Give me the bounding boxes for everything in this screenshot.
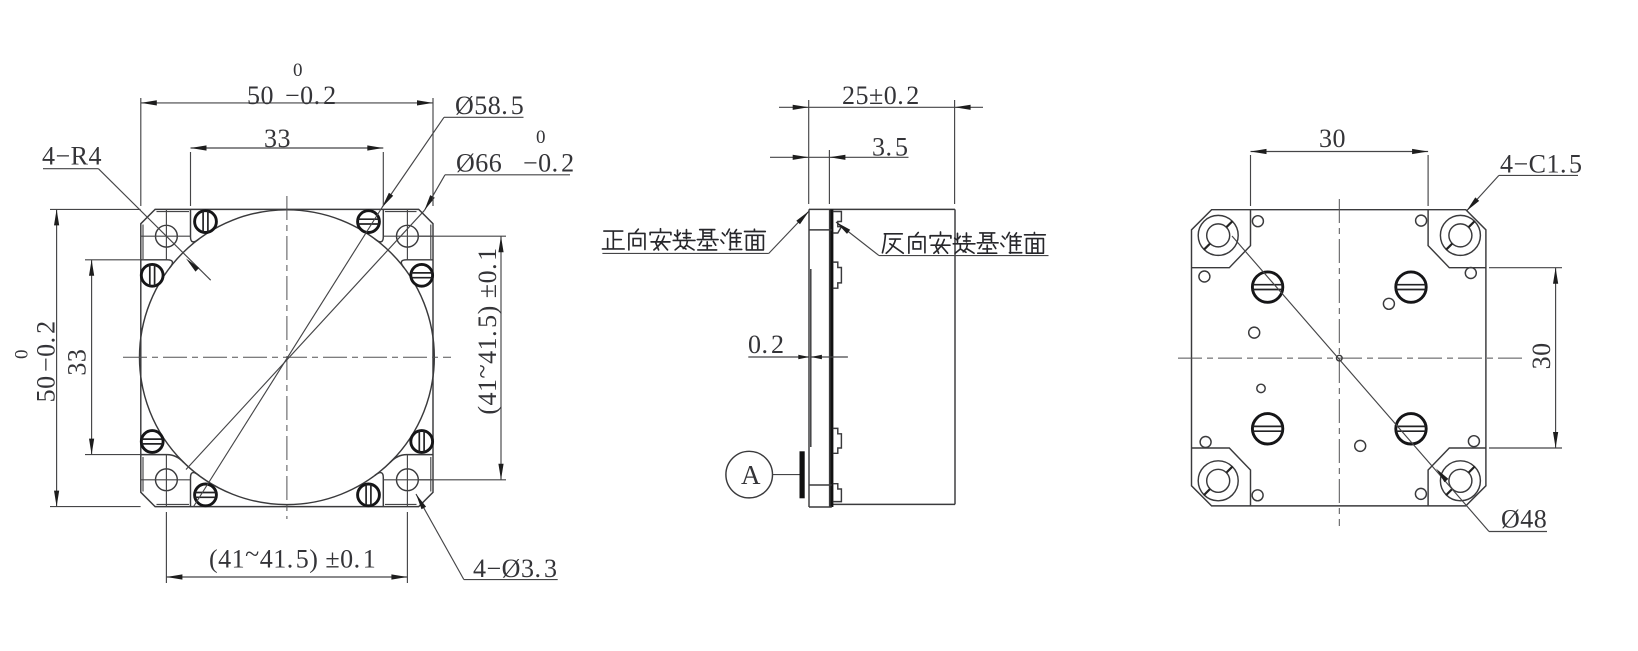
vertical centerline — [286, 196, 288, 519]
svg-text:0: 0 — [536, 127, 546, 148]
O48 bolt-circle diagonal leader — [1232, 236, 1489, 532]
dimension (41~41.5) +-0.1 bottom: extension lines — [165, 512, 167, 583]
svg-text:0: 0 — [293, 60, 303, 81]
plate bottom edge — [809, 506, 832, 508]
svg-text:33: 33 — [63, 349, 92, 376]
body bottom edge — [832, 503, 955, 505]
svg-text:−0.2: −0.2 — [523, 149, 575, 178]
top-left corner pad outline — [1192, 210, 1251, 268]
top-left pocket horizontal wall — [141, 260, 173, 268]
rear view vertical centerline — [1338, 199, 1340, 526]
svg-text:(41~41.5) ±0.1: (41~41.5) ±0.1 — [468, 247, 502, 414]
dimension right: dimension line — [500, 236, 502, 480]
svg-text:Ø48: Ø48 — [1501, 505, 1547, 534]
svg-text:50: 50 — [31, 375, 60, 402]
slotted screw head rear upper-left — [1252, 272, 1282, 302]
slotted screw head rear lower-right — [1396, 414, 1426, 444]
svg-text:4−C1.5: 4−C1.5 — [1500, 150, 1583, 179]
counterbore hole top-right — [1440, 215, 1480, 255]
horizontal centerline — [123, 356, 451, 358]
slotted screw head, top edge left — [195, 211, 217, 233]
O58.5 leader from label — [382, 117, 444, 207]
clip tab upper — [833, 262, 842, 288]
dimension 33 left: extension lines — [85, 259, 141, 261]
plate bottom flange line — [809, 484, 832, 486]
plate left edge (front mounting face) — [808, 209, 810, 507]
left view: front view of square mounting plate — [12, 60, 575, 583]
middle view: side section of plate and body — [602, 81, 1048, 507]
bottom-left pocket vertical wall — [191, 473, 200, 507]
datum target A: filled target bar — [800, 451, 805, 498]
dimension 3.5: dimension line — [770, 156, 909, 158]
slotted screw head, top edge right — [358, 211, 380, 233]
corner rim inner edge lines — [142, 225, 144, 260]
dimension 30 right: dimension line — [1555, 268, 1557, 448]
datum target A: leader line — [773, 474, 800, 476]
clip tab top — [833, 212, 842, 234]
corner mounting hole bottom-left — [156, 469, 178, 491]
top-right pocket vertical wall — [375, 209, 384, 241]
counterbore hole top-left — [1198, 215, 1238, 255]
4-R4 leader through corner hole — [98, 169, 210, 281]
dimension 50 -0.2 left: extension lines — [50, 208, 141, 210]
svg-text:33: 33 — [264, 124, 291, 153]
svg-text:4−R4: 4−R4 — [42, 142, 102, 171]
large rotor circle (O58.5) — [140, 210, 435, 505]
svg-text:−0.2: −0.2 — [285, 81, 337, 110]
dimension 30 right: extension lines — [1489, 267, 1562, 269]
top-right pocket horizontal wall — [401, 260, 433, 268]
clip tab lower — [833, 428, 842, 453]
svg-text:4−Ø3.3: 4−Ø3.3 — [473, 554, 557, 583]
plate top flange line — [809, 229, 832, 231]
dimension right: rotated text — [468, 247, 502, 414]
counterbore hole bottom-left — [1198, 461, 1238, 501]
slotted screw head, bottom edge left — [195, 484, 217, 506]
dimension 33 top: dimension line — [191, 147, 384, 149]
svg-text:(41~41.5) ±0.1: (41~41.5) ±0.1 — [209, 540, 376, 574]
4-C1.5 leader — [1467, 175, 1499, 211]
slotted screw head rear upper-right — [1396, 272, 1426, 302]
dimension 25+-0.2: extension lines — [808, 100, 810, 204]
leader of reverse label — [836, 222, 879, 256]
svg-text:0.2: 0.2 — [748, 330, 785, 359]
slotted screw head, right edge lower — [411, 431, 433, 453]
svg-text:Ø66: Ø66 — [456, 149, 502, 178]
plate outline with 4 chamfered corners — [141, 209, 433, 506]
corner mounting hole top-left (4-O3.3) — [156, 225, 178, 247]
label: fan xiang an zhuang ji zhun mian (reverse mounting datum face) — [882, 234, 903, 253]
dimension 30 top: extension lines — [1250, 155, 1252, 206]
dimension 33 left: rotated text — [63, 349, 92, 376]
svg-text:−0.2: −0.2 — [31, 320, 60, 372]
slotted screw head, right edge upper — [411, 264, 433, 286]
svg-text:50: 50 — [247, 81, 274, 110]
datum target A: balloon circle — [726, 451, 773, 498]
4-O3.3 leader — [416, 494, 464, 580]
top-right corner pad outline — [1428, 210, 1486, 268]
dimension 25+-0.2: dimension line with outside arrows — [779, 106, 983, 108]
label: zheng xiang an zhuang ji zhun mian (forward mounting datum face) — [602, 231, 624, 249]
svg-text:30: 30 — [1527, 342, 1556, 369]
plate inner vertical line — [829, 209, 831, 507]
dimension 50 -0.2 left: rotated text — [12, 320, 61, 402]
O58.5 diameter line across circle — [194, 208, 382, 507]
svg-text:Ø58.5: Ø58.5 — [455, 91, 524, 120]
dimension 33 top: extension lines — [190, 152, 192, 206]
dimension bottom: dimension line — [166, 576, 407, 578]
bottom-left corner pad outline — [1192, 448, 1251, 506]
clip tab bottom — [833, 484, 842, 502]
bottom-right corner pad outline — [1428, 448, 1486, 506]
dimension 50 -0.2 top: dimension line — [141, 102, 433, 104]
O66 leader from label — [425, 175, 446, 211]
underline of reverse label — [879, 255, 1049, 257]
dimension 50 -0.2 left: dimension line — [56, 209, 58, 506]
plate rear thick face — [830, 209, 833, 507]
center pin hole — [1337, 355, 1343, 361]
dimension 50 -0.2 top: extension lines — [140, 98, 142, 206]
slotted screw head, bottom edge right — [358, 484, 380, 506]
slotted screw head, left edge upper — [141, 264, 163, 286]
bottom-right pocket horizontal wall — [390, 455, 433, 463]
0.2 step line on front face — [810, 269, 812, 447]
svg-text:A: A — [741, 460, 761, 490]
top-left pocket vertical wall — [191, 209, 200, 241]
corner mounting hole bottom-right — [397, 469, 419, 491]
dimension 30 top: dimension line — [1251, 151, 1429, 153]
leader of forward label — [769, 211, 809, 254]
underline of forward label — [602, 252, 768, 254]
svg-text:3.5: 3.5 — [872, 133, 909, 162]
right view: rear view of plate — [1178, 124, 1583, 534]
svg-text:25±0.2: 25±0.2 — [842, 81, 920, 110]
dimension 30 right: rotated text — [1527, 342, 1556, 369]
rear view horizontal centerline — [1178, 357, 1523, 359]
O66 diameter line across circle — [186, 210, 425, 469]
svg-text:30: 30 — [1319, 124, 1346, 153]
slotted screw head, left edge lower — [141, 431, 163, 453]
counterbore hole bottom-right — [1440, 461, 1480, 501]
bottom-left pocket horizontal wall — [141, 455, 184, 463]
corner mounting hole top-right — [397, 225, 419, 247]
body top edge — [809, 208, 955, 210]
dimension (41~41.5) +-0.1 right: extension lines — [419, 235, 506, 237]
body right edge — [954, 209, 956, 504]
dimension 0.2: leader line and text — [748, 356, 809, 358]
dimension 3.5: extension line — [828, 150, 830, 204]
bottom-right pocket vertical wall — [375, 473, 384, 507]
svg-text:0: 0 — [12, 350, 33, 360]
dimension 33 left: dimension line — [91, 260, 93, 455]
slotted screw head rear lower-left — [1252, 414, 1282, 444]
rear plate outline with chamfered corners (4-C1.5) — [1192, 210, 1486, 506]
small interior holes — [1383, 298, 1394, 309]
small edge holes — [1252, 216, 1263, 227]
